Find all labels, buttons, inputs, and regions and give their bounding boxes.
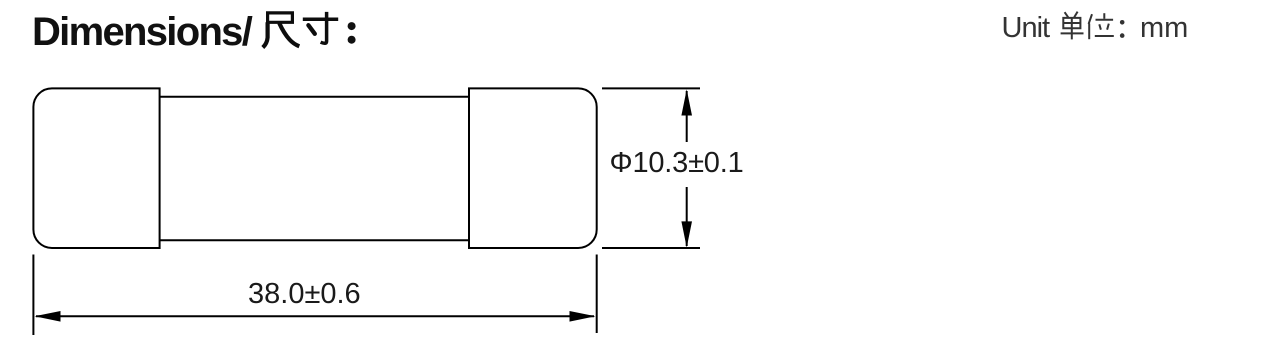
unit label "Unit"	[1002, 14, 1050, 43]
length dim: left extension line	[32, 255, 34, 336]
diameter dim: top extension line	[602, 87, 700, 89]
unit CJK char 单	[1061, 12, 1084, 40]
fuse right end cap	[469, 88, 597, 248]
unit CJK char 位	[1089, 13, 1114, 39]
length dim: dimension line	[36, 315, 594, 317]
fuse left end cap	[33, 88, 159, 248]
title text "Dimensions/"	[32, 12, 251, 52]
unit value "mm"	[1140, 14, 1188, 43]
diameter dim: upper dimension line segment	[686, 91, 688, 142]
fuse body top line	[160, 96, 469, 98]
length dim: right extension line	[596, 255, 598, 334]
title fullwidth colon ： (bold)	[348, 22, 356, 44]
diameter dimension text Φ10.3±0.1	[610, 149, 744, 178]
length dim: right arrowhead (points right)	[570, 311, 596, 322]
unit fullwidth colon ：	[1120, 20, 1125, 38]
diameter dim: lower dimension line segment	[686, 187, 688, 246]
diameter dim: bottom extension line	[602, 247, 700, 249]
diameter dim: lower arrowhead (points down)	[681, 221, 692, 247]
fuse body bottom line	[160, 239, 469, 241]
diameter dim: upper arrowhead (points up)	[681, 89, 692, 115]
title CJK char 寸 (bold)	[303, 12, 338, 43]
length dim: left arrowhead (points left)	[35, 311, 61, 322]
length dimension text 38.0±0.6	[248, 280, 361, 309]
title CJK char 尺 (bold)	[263, 13, 300, 48]
